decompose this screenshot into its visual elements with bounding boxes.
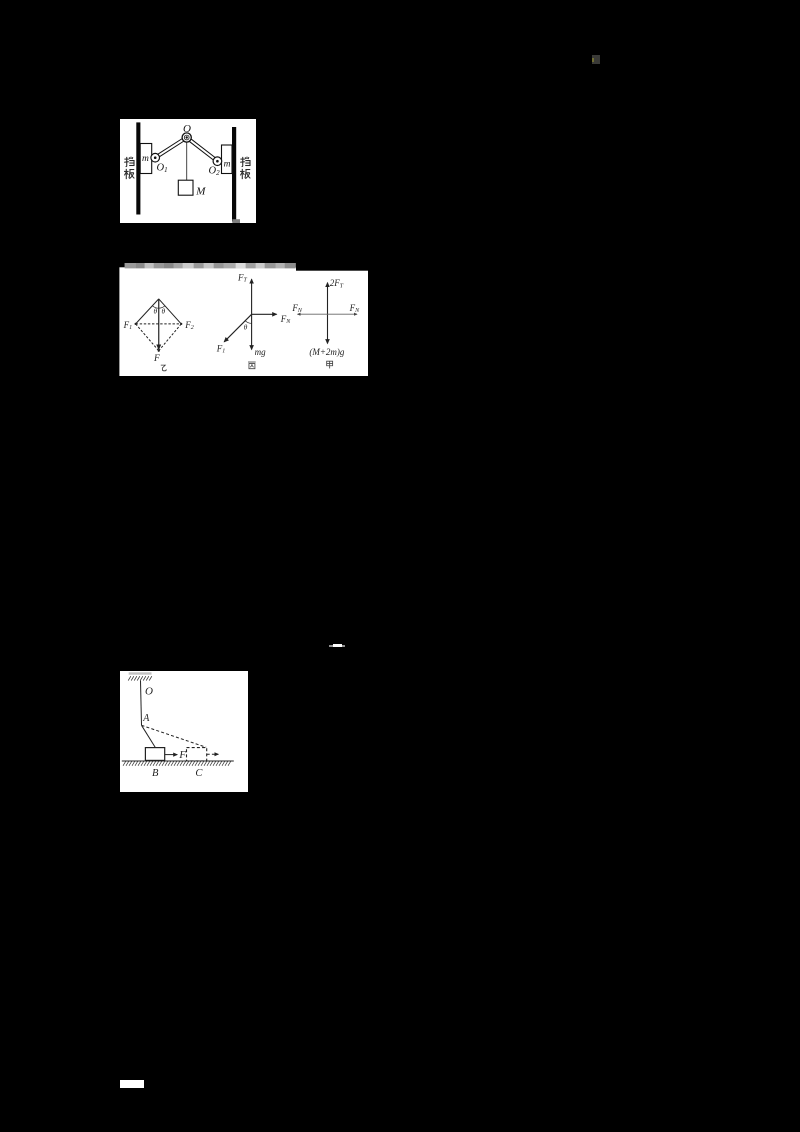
PANEL2 (force diagrams) (119, 263, 368, 376)
rod O-O1 (double line) (155, 138, 187, 158)
pulley O2 (213, 157, 222, 166)
right text 挡 (240, 157, 250, 167)
line apex-left (136, 299, 159, 324)
theta arc (245, 321, 251, 324)
white blob artifact mid page (329, 645, 345, 647)
svg-text:A: A (142, 713, 150, 724)
white rectangle bottom left (120, 1080, 144, 1088)
vertex dots (135, 323, 137, 325)
force F arrow (165, 754, 178, 756)
svg-text:O: O (183, 123, 191, 135)
svg-text:θ: θ (244, 323, 248, 332)
block C dashed (187, 748, 207, 761)
block B (145, 748, 164, 761)
angle arc (152, 306, 165, 309)
ground line (122, 760, 234, 762)
pulley O1 (151, 153, 160, 162)
string O-A (141, 681, 142, 726)
white image area left (119, 267, 296, 376)
white image area right (296, 271, 368, 376)
dashed left-bottom (136, 324, 159, 351)
resultant F arrow (158, 299, 160, 349)
ceiling hatching (128, 676, 152, 680)
gray bar above ceiling (129, 672, 152, 674)
mg down arrow (251, 314, 253, 349)
rod O-O2 (double line) (187, 138, 218, 162)
svg-text:θ: θ (153, 307, 157, 316)
yellow-green speck (592, 58, 594, 62)
right wall bar (232, 127, 236, 222)
left text 挡 (124, 157, 134, 167)
block m left (140, 144, 152, 174)
gray smudge at right bar foot (232, 219, 240, 223)
svg-text:mg: mg (255, 347, 266, 357)
pulley O (182, 133, 191, 142)
label jia (327, 361, 333, 368)
F1 diagonal arrow (224, 314, 251, 342)
svg-text:O: O (145, 686, 153, 698)
dashed string A to C (142, 725, 207, 747)
diagram BING (axes) (224, 279, 276, 349)
svg-text:M: M (195, 186, 206, 198)
FT up arrow (251, 279, 253, 314)
diagram YI (kite) (136, 299, 182, 351)
dashed arrow from C (207, 753, 219, 755)
PANEL3 (string O-A, blocks B and C) (120, 671, 248, 792)
2FT up / (M+2m)g down arrows (327, 283, 329, 344)
label yi (161, 365, 166, 371)
svg-text:m: m (224, 160, 231, 170)
right text 板 (240, 169, 250, 179)
dashed right-bottom (159, 324, 182, 351)
dashed left-right (136, 323, 182, 325)
svg-text:F: F (153, 354, 160, 364)
string O to M (186, 138, 188, 181)
ground hatching (123, 761, 231, 766)
svg-text:m: m (142, 154, 149, 164)
svg-text:θ: θ (161, 307, 165, 316)
taut string A to B (142, 725, 156, 747)
blurred text band (125, 263, 296, 268)
weight M box (178, 180, 193, 195)
left wall bar (136, 122, 140, 214)
label bing (248, 362, 256, 369)
FN horizontal double arrow (lighter) (298, 313, 358, 315)
PANEL1 (pulley system with baffles) (120, 119, 256, 223)
svg-text:C: C (195, 768, 203, 779)
FN right arrow (252, 313, 277, 315)
svg-text:(M+2m)g: (M+2m)g (309, 347, 345, 357)
gray artifact square top right (592, 55, 600, 64)
left text 板 (124, 169, 134, 179)
svg-text:F: F (178, 750, 186, 761)
block m right (222, 145, 233, 174)
line apex-right (159, 299, 182, 324)
svg-text:B: B (152, 768, 159, 779)
